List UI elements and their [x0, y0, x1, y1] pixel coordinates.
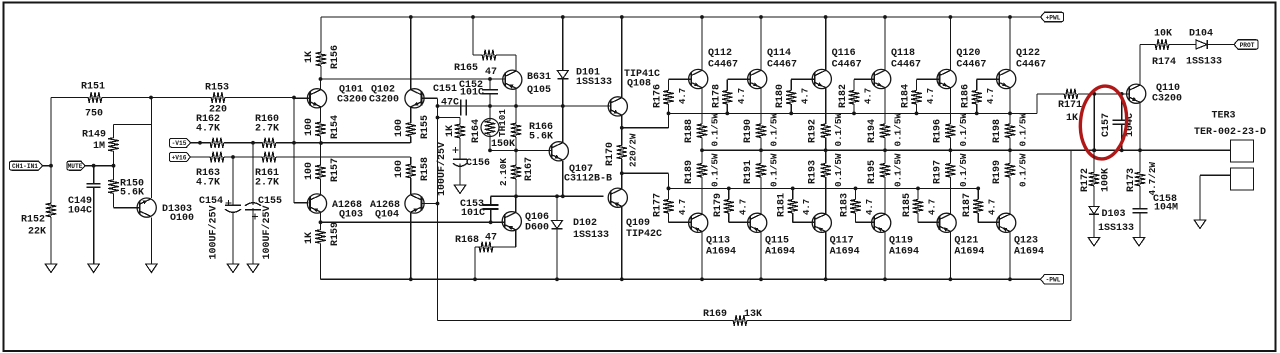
- svg-text:104C: 104C: [68, 206, 92, 217]
- wire R192 to output bus: [825, 139, 827, 150]
- junction C152 tap on y79 net: [488, 77, 492, 81]
- svg-text:47: 47: [485, 67, 497, 78]
- svg-text:R165: R165: [454, 63, 478, 74]
- svg-text:R194: R194: [867, 119, 878, 143]
- svg-text:R183: R183: [840, 193, 851, 217]
- net B wire +V16 row: [191, 156, 210, 158]
- junction Q109 on rail: [620, 277, 624, 281]
- transistor Q109 TIP42C PNP: [608, 188, 627, 207]
- wire C156 to ground: [459, 164, 461, 185]
- svg-text:R152: R152: [21, 215, 45, 226]
- svg-text:A1694: A1694: [1014, 247, 1044, 258]
- svg-text:104M: 104M: [1154, 203, 1178, 214]
- wire R195 to Q119 emitter: [884, 179, 886, 214]
- wire R171 to C157 node: [1078, 93, 1094, 95]
- junction R168 on rail: [473, 277, 477, 281]
- wire R172 to D103: [1093, 186, 1095, 206]
- wire Q123 collector to -PWL rail: [1009, 232, 1011, 279]
- junction R177 on PNP driver bus: [667, 187, 671, 191]
- junction R171 tap on Q122 emitter: [1008, 112, 1012, 116]
- wire C151 right: [466, 105, 490, 107]
- wire R154 to net A: [320, 138, 322, 143]
- resistor R191 0.1/5W: [760, 162, 762, 164]
- svg-text:+V16: +V16: [172, 154, 187, 161]
- ground below R152: [45, 264, 57, 273]
- svg-text:MUTE: MUTE: [68, 163, 83, 170]
- transistor Q115 A1694: [748, 213, 767, 232]
- svg-text:C4467: C4467: [891, 60, 921, 71]
- wire D104 to PROT tag: [1208, 44, 1234, 46]
- resistor R160: [261, 142, 262, 144]
- input pair base column x=294: [292, 96, 296, 100]
- svg-text:R180: R180: [775, 84, 786, 108]
- transistor Q122 C4467: [997, 69, 1016, 88]
- svg-text:0.1/5W: 0.1/5W: [958, 113, 969, 147]
- wire node down to output bus: [1093, 94, 1095, 150]
- transistor Q108 TIP41C: [608, 97, 627, 116]
- wire R191 to Q115 emitter: [760, 179, 762, 214]
- svg-text:D103: D103: [1102, 209, 1126, 220]
- resistor R179 base 4.7: [728, 188, 730, 199]
- wire R196 to output bus: [949, 139, 951, 150]
- svg-text:R187: R187: [962, 193, 973, 217]
- resistor R159: [320, 222, 322, 228]
- PNP driver bus: [669, 187, 980, 189]
- resistor R192 emitter 0.1/5W: [825, 123, 827, 125]
- connector TER3 pin 2: [1231, 168, 1254, 190]
- tag -PWL: [1041, 275, 1064, 285]
- svg-text:Q106: Q106: [525, 212, 549, 223]
- wire R168 to -PWL rail: [475, 246, 480, 248]
- wire Q121 collector to -PWL rail: [949, 232, 951, 279]
- svg-text:R159: R159: [330, 222, 341, 246]
- wire Q119 collector to -PWL rail: [884, 232, 886, 279]
- svg-text:0.1/5W: 0.1/5W: [893, 153, 904, 187]
- resistor R199 0.1/5W: [1009, 162, 1011, 164]
- svg-text:R178: R178: [711, 84, 722, 108]
- junction R184 on NPN driver bus: [915, 112, 919, 116]
- svg-text:Q119: Q119: [889, 236, 913, 247]
- svg-text:R149: R149: [82, 130, 106, 141]
- wire R155 to net A corner: [410, 138, 412, 143]
- wire R198 to output bus: [1009, 139, 1011, 150]
- svg-text:C4467: C4467: [832, 60, 862, 71]
- junction Q103/R159: [319, 220, 323, 224]
- wire TH101 to base net: [489, 137, 491, 151]
- svg-text:A1694: A1694: [954, 247, 984, 258]
- resistor R168: [479, 242, 493, 252]
- resistor R189 0.1/5W: [701, 162, 703, 164]
- svg-text:R197: R197: [932, 160, 943, 184]
- resistor R187 base 4.7: [977, 188, 979, 199]
- svg-text:Q104: Q104: [375, 210, 399, 221]
- wire D102 to -PWL rail: [556, 230, 558, 280]
- connector TER3 pin 1: [1231, 140, 1254, 162]
- svg-text:0.1/5W: 0.1/5W: [1018, 153, 1029, 187]
- svg-text:R193: R193: [808, 160, 819, 184]
- junction Q108 emitter/R170: [620, 126, 624, 130]
- ground below TER3: [1194, 220, 1206, 229]
- svg-text:4.7: 4.7: [988, 199, 998, 215]
- wire R158 to Q104: [410, 178, 412, 194]
- wire R162-R160: [225, 142, 261, 144]
- wire Q107 emitter: [562, 161, 564, 197]
- svg-text:101C: 101C: [460, 88, 484, 99]
- svg-text:R191: R191: [743, 160, 754, 184]
- svg-text:B631: B631: [527, 72, 551, 83]
- svg-text:4.7: 4.7: [928, 199, 938, 215]
- svg-text:2.10K: 2.10K: [498, 158, 509, 186]
- net A to emitter junctions: [277, 142, 411, 144]
- wire CH1-IN1 to node: [43, 165, 52, 167]
- NPN driver bus: [669, 112, 1011, 114]
- resistor R164: [459, 118, 461, 124]
- wire Q113 collector to -PWL rail: [701, 232, 703, 279]
- svg-text:R179: R179: [713, 193, 724, 217]
- svg-text:5.6K: 5.6K: [529, 132, 553, 143]
- resistor R185 base 4.7: [917, 188, 919, 199]
- resistor R151: [86, 97, 88, 99]
- Q109 base net wire: [491, 195, 604, 197]
- wire D1303 emitter to ground: [150, 217, 152, 264]
- wire C154 to ground: [232, 212, 234, 264]
- net A wire -V15 row: [191, 142, 210, 144]
- svg-text:C4467: C4467: [708, 60, 738, 71]
- svg-text:0.1/5W: 0.1/5W: [958, 153, 969, 187]
- resistor R166: [515, 106, 517, 121]
- resistor R149: [113, 125, 115, 139]
- resistor R198 emitter 0.1/5W: [1009, 123, 1011, 125]
- svg-text:R195: R195: [867, 160, 878, 184]
- svg-text:Q114: Q114: [767, 48, 791, 59]
- svg-text:1SS133: 1SS133: [1186, 57, 1222, 68]
- transistor Q110 C3200: [1127, 84, 1146, 103]
- tag +V16: [170, 153, 191, 162]
- svg-text:Q110: Q110: [1156, 83, 1180, 94]
- junction R149/R150: [112, 164, 116, 168]
- junction Q113 on rail: [700, 277, 704, 281]
- junction Q110/R173 on output bus: [1138, 148, 1142, 152]
- svg-text:R167: R167: [524, 157, 535, 181]
- svg-text:R196: R196: [932, 119, 943, 143]
- ground below C158: [1133, 238, 1145, 247]
- junction R180 on NPN driver bus: [789, 112, 793, 116]
- negative rail -PWL: [321, 278, 1011, 280]
- svg-text:Q116: Q116: [832, 48, 856, 59]
- wire Q101 base: [294, 97, 310, 99]
- resistor R193 0.1/5W: [825, 162, 827, 164]
- svg-text:C4467: C4467: [1016, 60, 1046, 71]
- transistor Q103 PNP: [307, 194, 326, 213]
- wire R193 to Q117 emitter: [825, 179, 827, 214]
- thermistor TH101: [489, 106, 491, 118]
- svg-text:R170: R170: [605, 142, 616, 166]
- resistor R172: [1093, 150, 1095, 172]
- junction D101 bottom node: [561, 104, 565, 108]
- resistor R156 with risers: [320, 17, 322, 50]
- svg-text:C156: C156: [466, 158, 490, 169]
- svg-text:R158: R158: [420, 157, 431, 181]
- resistor R150: [113, 166, 115, 180]
- resistor R177 base 4.7: [668, 188, 670, 199]
- power rail +PWL: [321, 16, 1041, 18]
- junction node at x=151: [149, 96, 153, 100]
- svg-text:100: 100: [304, 118, 315, 136]
- output bus: [702, 149, 1230, 151]
- resistor R190 emitter 0.1/5W: [760, 123, 762, 125]
- driver bus jog: [622, 127, 669, 129]
- diode D102: [556, 196, 558, 220]
- resistor R154: [320, 107, 322, 120]
- svg-text:C3200: C3200: [337, 95, 367, 106]
- Q102 collector wire to rail: [410, 17, 412, 90]
- svg-text:1SS133: 1SS133: [1098, 223, 1134, 234]
- svg-text:4.7: 4.7: [864, 88, 874, 104]
- svg-text:100: 100: [394, 119, 405, 137]
- transistor Q117 A1694: [812, 213, 831, 232]
- wire Q104 collector to -PWL rail: [410, 213, 412, 279]
- svg-text:0.1/5W: 0.1/5W: [833, 153, 844, 187]
- svg-text:C155: C155: [258, 196, 282, 207]
- svg-text:4.7: 4.7: [678, 199, 688, 215]
- junction Q105 collector node: [514, 104, 518, 108]
- tag MUTE: [67, 161, 85, 170]
- wire Q120 emitter: [949, 88, 951, 122]
- svg-text:R189: R189: [684, 160, 695, 184]
- svg-text:Q113: Q113: [706, 236, 730, 247]
- svg-text:10K: 10K: [1154, 29, 1172, 40]
- svg-text:13K: 13K: [744, 309, 762, 320]
- svg-text:R199: R199: [992, 160, 1003, 184]
- wire R164 stub: [438, 117, 461, 119]
- resistor R169: [732, 320, 734, 322]
- junction R185 on PNP driver bus: [916, 187, 920, 191]
- wire rail to -PWL tag: [1010, 278, 1041, 280]
- wire D103 to ground: [1093, 214, 1095, 238]
- svg-text:C3200: C3200: [369, 95, 399, 106]
- resistor R188 emitter 0.1/5W: [701, 123, 703, 125]
- wire Q116 emitter: [825, 88, 827, 122]
- svg-text:R173: R173: [1126, 168, 1137, 192]
- feedback column wire: [437, 98, 439, 320]
- svg-text:0.1/5W: 0.1/5W: [769, 153, 780, 187]
- svg-text:C3200: C3200: [1152, 94, 1182, 105]
- resistor R174: [1154, 44, 1156, 46]
- svg-text:C4467: C4467: [767, 60, 797, 71]
- wire Q112 emitter: [701, 88, 703, 122]
- wire to Q103 base: [294, 202, 309, 204]
- svg-text:R198: R198: [992, 119, 1003, 143]
- wire C152 to node: [489, 94, 491, 106]
- wire R173 to C158: [1139, 186, 1141, 209]
- transistor Q114 C4467: [748, 69, 767, 88]
- resistor R152: [50, 202, 52, 204]
- svg-text:R168: R168: [455, 235, 479, 246]
- PNP driver bus jog: [622, 172, 669, 174]
- svg-text:CH1-IN1: CH1-IN1: [12, 163, 38, 170]
- wire C153 to Q106 base net: [490, 209, 492, 222]
- svg-text:R156: R156: [330, 45, 341, 69]
- transistor Q106 PNP: [502, 212, 521, 231]
- junction R192 on output bus: [824, 148, 828, 152]
- wire D101 to node: [562, 80, 564, 107]
- svg-text:D600: D600: [525, 223, 549, 234]
- svg-text:1M: 1M: [93, 141, 105, 152]
- svg-text:100K: 100K: [1101, 168, 1112, 192]
- wire R190 to output bus: [760, 139, 762, 150]
- junction Q101 collector node: [319, 77, 323, 81]
- wire Q109 emitter: [621, 173, 623, 188]
- wire node to Q110 base: [1094, 93, 1129, 95]
- wire y106 net: [438, 105, 611, 107]
- rail riser to R165: [472, 17, 474, 55]
- junction feedback node: [436, 202, 440, 206]
- svg-text:R190: R190: [743, 119, 754, 143]
- svg-text:R176: R176: [653, 84, 664, 108]
- wire R151 to R153: [104, 97, 208, 99]
- node input column: [49, 164, 53, 168]
- svg-text:C154: C154: [199, 196, 223, 207]
- transistor Q118 C4467: [872, 69, 891, 88]
- wire C151 left: [438, 105, 461, 107]
- junction node on output bus: [1092, 148, 1096, 152]
- svg-text:R172: R172: [1080, 168, 1091, 192]
- svg-text:750: 750: [85, 108, 103, 119]
- resistor R162: [209, 142, 210, 144]
- junction R167/Q106: [514, 194, 518, 198]
- resistor R183 base 4.7: [855, 188, 857, 199]
- junction R186 on NPN driver bus: [975, 112, 979, 116]
- ground below C149: [88, 264, 100, 273]
- svg-text:-V15: -V15: [172, 140, 187, 147]
- diode D104: [1196, 40, 1207, 49]
- junction R196 on output bus: [949, 148, 953, 152]
- ground below C155: [247, 264, 259, 273]
- junction R181 on PNP driver bus: [791, 187, 795, 191]
- svg-text:R177: R177: [653, 193, 664, 217]
- Q107 base net: [490, 149, 552, 151]
- svg-text:1K: 1K: [304, 232, 315, 244]
- svg-text:100UF/25V: 100UF/25V: [208, 205, 220, 259]
- svg-text:4.7: 4.7: [678, 88, 688, 104]
- junction net A x294: [292, 141, 296, 145]
- red circle annotation around C157: [1077, 84, 1129, 161]
- wire Q120 collector to rail: [949, 17, 951, 70]
- svg-text:Q115: Q115: [765, 236, 789, 247]
- capacitor C154 electrolytic: [232, 157, 234, 205]
- wire R153 to Q101 base node: [228, 97, 294, 99]
- svg-text:22K: 22K: [28, 227, 46, 238]
- wire Q104 base to feedback column: [422, 203, 438, 205]
- svg-text:R169: R169: [703, 309, 727, 320]
- capacitor C155 electrolytic: [252, 143, 254, 205]
- svg-text:Q118: Q118: [891, 48, 915, 59]
- tag +PWL: [1041, 12, 1064, 22]
- junction R198 on output bus: [1008, 148, 1012, 152]
- lower bias net to Q106 base: [321, 221, 505, 223]
- transistor Q102 mirrored: [405, 89, 424, 108]
- junction C151 tap upper: [436, 104, 440, 108]
- resistor R180 base 4.7: [791, 78, 815, 80]
- svg-text:Q105: Q105: [527, 85, 551, 96]
- wire Q118 emitter: [884, 88, 886, 122]
- capacitor C158: [1133, 208, 1148, 210]
- wire R157 to Q103: [320, 181, 322, 194]
- wire top-left net: [51, 97, 86, 99]
- svg-text:1K: 1K: [304, 51, 315, 63]
- svg-text:Q108: Q108: [627, 79, 651, 90]
- junction R164 tap: [436, 116, 440, 120]
- svg-text:R151: R151: [81, 82, 105, 93]
- svg-text:Q121: Q121: [954, 236, 978, 247]
- svg-text:0.1/5W: 0.1/5W: [710, 153, 721, 187]
- capacitor C151: [460, 99, 462, 115]
- junction R182 on NPN driver bus: [852, 112, 856, 116]
- svg-text:TER3: TER3: [1212, 111, 1236, 122]
- capacitor C153: [490, 196, 492, 204]
- junction Q115 on rail: [759, 277, 763, 281]
- resistor R155: [410, 107, 412, 121]
- resistor R171: [1063, 93, 1065, 95]
- wire Q106 collector to R168: [515, 231, 517, 248]
- svg-text:R171: R171: [1058, 100, 1082, 111]
- net B to R158: [277, 156, 411, 158]
- transistor Q113 A1694: [689, 213, 708, 232]
- svg-text:D104: D104: [1189, 29, 1213, 40]
- junction Q121 on rail: [949, 277, 953, 281]
- svg-text:R155: R155: [420, 115, 431, 139]
- feedback right riser to output bus: [1070, 150, 1072, 320]
- tag -V15: [170, 138, 191, 147]
- svg-text:100: 100: [394, 160, 405, 178]
- resistor R182 base 4.7: [854, 78, 874, 80]
- resistor R157: [320, 143, 322, 163]
- wire Q107 collector: [562, 106, 564, 142]
- resistor R170: [621, 144, 623, 145]
- diode D101: [562, 17, 564, 71]
- wire R165 to Q105 emitter: [496, 54, 516, 56]
- junction R154/R157: [319, 141, 323, 145]
- wire Q114 emitter: [760, 88, 762, 122]
- svg-text:4.7: 4.7: [738, 199, 748, 215]
- transistor Q116 C4467: [812, 69, 831, 88]
- svg-text:1SS133: 1SS133: [576, 77, 612, 88]
- resistor R178 base 4.7: [727, 78, 750, 80]
- resistor R163: [209, 156, 210, 158]
- junction C157 node: [1092, 92, 1096, 96]
- svg-text:TIP42C: TIP42C: [626, 229, 662, 240]
- svg-text:4.7: 4.7: [802, 199, 812, 215]
- wire R159 to -PWL rail: [320, 245, 322, 279]
- capacitor C149: [93, 166, 95, 184]
- junction C155 tap: [251, 141, 255, 145]
- wire R194 to output bus: [884, 139, 886, 150]
- svg-text:4.7: 4.7: [737, 88, 747, 104]
- svg-text:1K: 1K: [445, 125, 456, 137]
- svg-text:C4467: C4467: [956, 60, 986, 71]
- svg-text:A1694: A1694: [889, 247, 919, 258]
- wire R188 to output bus: [701, 139, 703, 150]
- VAS drive net y79: [321, 78, 506, 80]
- transistor Q105 B631 PNP: [503, 70, 522, 89]
- ground below D103: [1088, 238, 1100, 247]
- wire R156 to Q101 collector: [320, 68, 322, 79]
- svg-text:0.1/5W: 0.1/5W: [1018, 113, 1029, 147]
- junction C153/Q106 base: [489, 220, 493, 224]
- svg-text:R153: R153: [205, 83, 229, 94]
- transistor Q120 C4467: [937, 69, 956, 88]
- svg-text:4.7K: 4.7K: [196, 124, 220, 135]
